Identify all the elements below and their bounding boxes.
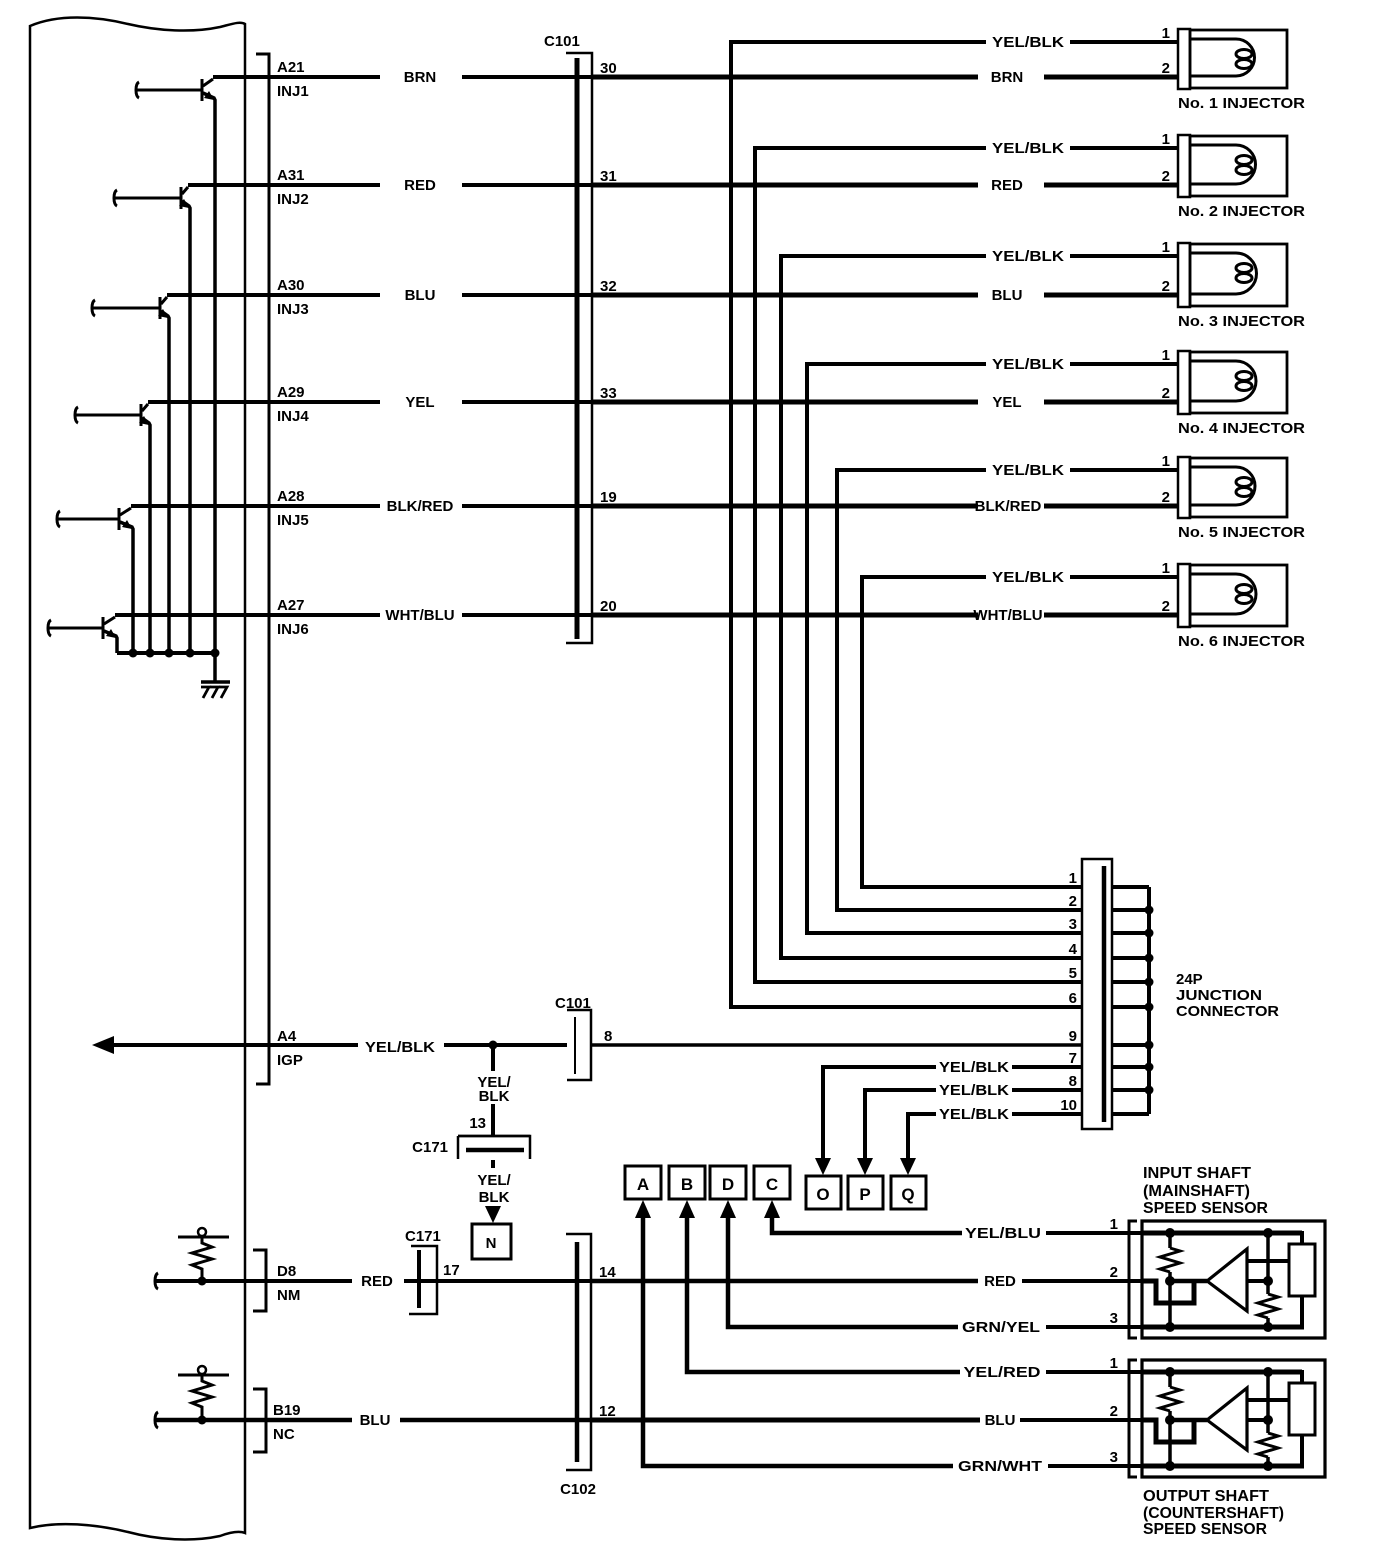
svg-text:19: 19 xyxy=(600,489,617,506)
svg-text:A4: A4 xyxy=(277,1028,297,1045)
svg-text:A31: A31 xyxy=(277,167,305,184)
svg-text:(COUNTERSHAFT): (COUNTERSHAFT) xyxy=(1143,1505,1284,1522)
svg-text:C102: C102 xyxy=(560,1481,596,1498)
svg-text:No. 6 INJECTOR: No. 6 INJECTOR xyxy=(1178,633,1305,650)
svg-text:6: 6 xyxy=(1069,990,1077,1007)
svg-text:YEL/BLK: YEL/BLK xyxy=(939,1106,1009,1123)
svg-text:3: 3 xyxy=(1069,916,1077,933)
svg-text:(MAINSHAFT): (MAINSHAFT) xyxy=(1143,1183,1250,1200)
svg-text:BLU: BLU xyxy=(405,287,436,304)
svg-text:BLU: BLU xyxy=(360,1412,391,1429)
svg-text:YEL/BLK: YEL/BLK xyxy=(939,1082,1009,1099)
svg-text:YEL/BLK: YEL/BLK xyxy=(939,1059,1009,1076)
svg-text:5: 5 xyxy=(1069,965,1077,982)
svg-text:A: A xyxy=(637,1175,649,1194)
svg-text:NM: NM xyxy=(277,1287,300,1304)
svg-text:A27: A27 xyxy=(277,597,305,614)
svg-text:INJ6: INJ6 xyxy=(277,621,309,638)
svg-text:C171: C171 xyxy=(405,1228,441,1245)
svg-text:C171: C171 xyxy=(412,1139,448,1156)
svg-text:YEL/BLK: YEL/BLK xyxy=(992,462,1064,479)
svg-text:C101: C101 xyxy=(555,995,591,1012)
svg-text:WHT/BLU: WHT/BLU xyxy=(385,607,454,624)
svg-text:IGP: IGP xyxy=(277,1052,303,1069)
svg-text:1: 1 xyxy=(1162,347,1170,364)
svg-text:2: 2 xyxy=(1110,1403,1118,1420)
svg-text:31: 31 xyxy=(600,168,617,185)
svg-text:30: 30 xyxy=(600,60,617,77)
svg-text:OUTPUT SHAFT: OUTPUT SHAFT xyxy=(1143,1488,1269,1505)
svg-text:2: 2 xyxy=(1162,598,1170,615)
svg-text:No. 2 INJECTOR: No. 2 INJECTOR xyxy=(1178,203,1305,220)
svg-text:2: 2 xyxy=(1110,1264,1118,1281)
svg-text:No. 1 INJECTOR: No. 1 INJECTOR xyxy=(1178,95,1305,112)
svg-text:1: 1 xyxy=(1162,25,1170,42)
svg-text:YEL/BLK: YEL/BLK xyxy=(992,34,1064,51)
svg-text:INPUT SHAFT: INPUT SHAFT xyxy=(1143,1165,1251,1182)
svg-text:2: 2 xyxy=(1162,489,1170,506)
svg-text:8: 8 xyxy=(604,1028,612,1045)
svg-text:A28: A28 xyxy=(277,488,305,505)
svg-text:RED: RED xyxy=(361,1273,393,1290)
svg-text:RED: RED xyxy=(404,177,436,194)
svg-text:O: O xyxy=(816,1185,829,1204)
svg-text:9: 9 xyxy=(1069,1028,1077,1045)
svg-text:GRN/YEL: GRN/YEL xyxy=(962,1319,1040,1336)
svg-text:RED: RED xyxy=(984,1273,1016,1290)
svg-text:C: C xyxy=(766,1175,778,1194)
svg-text:24P: 24P xyxy=(1176,971,1203,988)
svg-text:BLK: BLK xyxy=(479,1088,510,1105)
svg-text:D8: D8 xyxy=(277,1263,296,1280)
svg-text:CONNECTOR: CONNECTOR xyxy=(1176,1003,1279,1020)
svg-text:33: 33 xyxy=(600,385,617,402)
svg-text:No. 4 INJECTOR: No. 4 INJECTOR xyxy=(1178,420,1305,437)
svg-text:JUNCTION: JUNCTION xyxy=(1176,987,1262,1004)
svg-text:BLK/RED: BLK/RED xyxy=(975,498,1042,515)
svg-text:12: 12 xyxy=(599,1403,616,1420)
svg-text:2: 2 xyxy=(1069,893,1077,910)
svg-text:13: 13 xyxy=(469,1115,486,1132)
svg-text:No. 3 INJECTOR: No. 3 INJECTOR xyxy=(1178,313,1305,330)
svg-text:3: 3 xyxy=(1110,1449,1118,1466)
svg-text:RED: RED xyxy=(991,177,1023,194)
svg-text:32: 32 xyxy=(600,278,617,295)
svg-text:SPEED SENSOR: SPEED SENSOR xyxy=(1143,1200,1268,1217)
svg-text:7: 7 xyxy=(1069,1050,1077,1067)
svg-text:BLK: BLK xyxy=(479,1189,510,1206)
svg-text:1: 1 xyxy=(1162,239,1170,256)
svg-text:B19: B19 xyxy=(273,1402,301,1419)
svg-text:1: 1 xyxy=(1110,1216,1118,1233)
svg-text:BLU: BLU xyxy=(992,287,1023,304)
svg-text:YEL/BLK: YEL/BLK xyxy=(992,248,1064,265)
svg-text:INJ3: INJ3 xyxy=(277,301,309,318)
svg-text:NC: NC xyxy=(273,1426,295,1443)
svg-text:INJ2: INJ2 xyxy=(277,191,309,208)
svg-text:BRN: BRN xyxy=(404,69,437,86)
svg-text:No. 5 INJECTOR: No. 5 INJECTOR xyxy=(1178,524,1305,541)
svg-text:Q: Q xyxy=(901,1185,914,1204)
svg-text:WHT/BLU: WHT/BLU xyxy=(973,607,1042,624)
svg-text:1: 1 xyxy=(1162,453,1170,470)
svg-text:YEL/BLU: YEL/BLU xyxy=(965,1225,1041,1242)
svg-text:D: D xyxy=(722,1175,734,1194)
svg-text:BLU: BLU xyxy=(985,1412,1016,1429)
svg-text:1: 1 xyxy=(1069,870,1077,887)
svg-text:YEL: YEL xyxy=(405,394,434,411)
svg-text:YEL/BLK: YEL/BLK xyxy=(992,569,1064,586)
svg-text:YEL/BLK: YEL/BLK xyxy=(365,1039,435,1056)
svg-text:1: 1 xyxy=(1162,560,1170,577)
svg-text:YEL/RED: YEL/RED xyxy=(964,1364,1041,1381)
svg-text:YEL: YEL xyxy=(992,394,1021,411)
svg-text:BLK/RED: BLK/RED xyxy=(387,498,454,515)
svg-text:A29: A29 xyxy=(277,384,305,401)
svg-text:17: 17 xyxy=(443,1262,460,1279)
svg-text:B: B xyxy=(681,1175,693,1194)
svg-text:GRN/WHT: GRN/WHT xyxy=(958,1458,1042,1475)
svg-text:2: 2 xyxy=(1162,60,1170,77)
svg-text:A21: A21 xyxy=(277,59,305,76)
svg-text:C101: C101 xyxy=(544,33,580,50)
svg-text:3: 3 xyxy=(1110,1310,1118,1327)
svg-text:1: 1 xyxy=(1110,1355,1118,1372)
svg-text:A30: A30 xyxy=(277,277,305,294)
svg-text:YEL/: YEL/ xyxy=(477,1172,511,1189)
svg-text:YEL/BLK: YEL/BLK xyxy=(992,356,1064,373)
svg-text:SPEED SENSOR: SPEED SENSOR xyxy=(1143,1521,1267,1538)
svg-text:2: 2 xyxy=(1162,385,1170,402)
svg-text:INJ1: INJ1 xyxy=(277,83,309,100)
svg-text:N: N xyxy=(486,1235,497,1252)
svg-text:BRN: BRN xyxy=(991,69,1024,86)
svg-text:14: 14 xyxy=(599,1264,616,1281)
svg-text:1: 1 xyxy=(1162,131,1170,148)
svg-text:10: 10 xyxy=(1060,1097,1077,1114)
svg-text:P: P xyxy=(859,1185,870,1204)
svg-text:20: 20 xyxy=(600,598,617,615)
svg-text:INJ4: INJ4 xyxy=(277,408,309,425)
svg-text:YEL/BLK: YEL/BLK xyxy=(992,140,1064,157)
svg-text:8: 8 xyxy=(1069,1073,1077,1090)
svg-text:2: 2 xyxy=(1162,278,1170,295)
svg-text:INJ5: INJ5 xyxy=(277,512,309,529)
svg-text:4: 4 xyxy=(1069,941,1078,958)
svg-text:2: 2 xyxy=(1162,168,1170,185)
